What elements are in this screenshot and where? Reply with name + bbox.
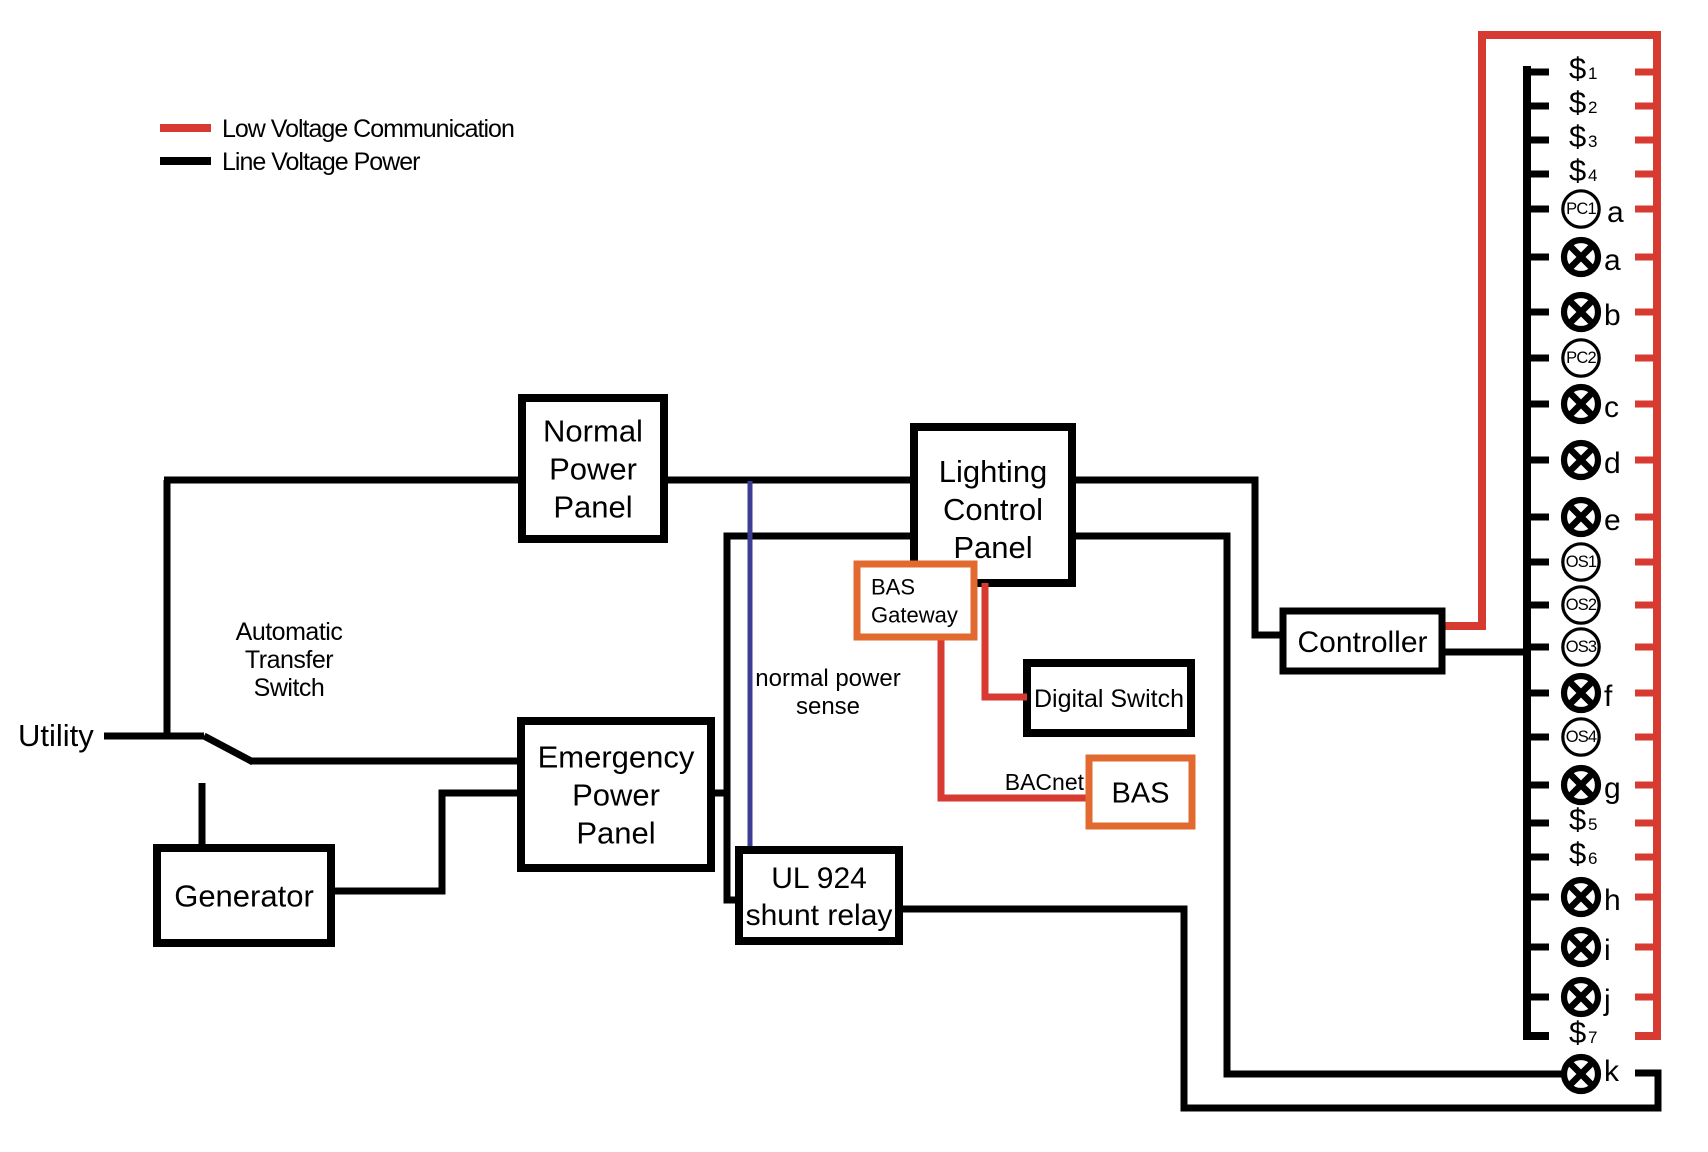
occupancy sensor OS4 xyxy=(1563,719,1599,755)
wire Lighting Control Panel feed via UL924 shunt relay xyxy=(727,536,914,900)
low voltage communication bus (red) with taps xyxy=(1635,35,1657,1036)
wire low voltage riser (red) up and over xyxy=(1482,35,1661,630)
wire Controller low voltage to riser (red) xyxy=(1442,622,1482,630)
switch $3 xyxy=(1569,119,1597,154)
fixture a (downlight) xyxy=(1564,240,1621,277)
svg-text:5: 5 xyxy=(1588,815,1597,834)
wire normal power sense (blue) xyxy=(748,481,753,851)
wire ATS to Normal Power Panel and on to Lighting Control Panel xyxy=(164,477,914,484)
fixture d (downlight) xyxy=(1564,443,1621,480)
svg-text:$: $ xyxy=(1569,802,1586,837)
svg-text:Panel: Panel xyxy=(953,530,1032,565)
fixture g (downlight) xyxy=(1564,768,1621,805)
fixture h (downlight) xyxy=(1564,880,1621,917)
svg-text:Lighting: Lighting xyxy=(939,454,1048,489)
svg-text:Generator: Generator xyxy=(174,879,314,914)
svg-text:Low Voltage Communication: Low Voltage Communication xyxy=(222,115,514,143)
wire BAS Gateway to BAS BACnet (red) xyxy=(941,637,1089,798)
svg-text:UL 924: UL 924 xyxy=(771,862,867,895)
occupancy sensor OS3 xyxy=(1563,629,1599,665)
svg-text:BAS: BAS xyxy=(1111,777,1169,809)
fixture c (downlight) xyxy=(1564,387,1619,424)
occupancy sensor OS2 xyxy=(1563,587,1599,623)
line voltage branch bus (black) with taps xyxy=(1527,66,1549,1036)
occupancy sensor OS1 xyxy=(1563,544,1599,580)
svg-text:Control: Control xyxy=(943,492,1043,527)
svg-text:sense: sense xyxy=(796,693,860,720)
wire Controller to branch bus xyxy=(1442,649,1524,656)
generator xyxy=(157,848,331,943)
svg-text:1: 1 xyxy=(1588,64,1597,83)
svg-text:e: e xyxy=(1604,504,1621,537)
svg-text:$: $ xyxy=(1569,51,1586,86)
label BACnet xyxy=(1005,769,1085,795)
gateway: BAS Gateway xyxy=(857,564,974,637)
legend: line voltage power swatch xyxy=(160,157,211,165)
svg-text:c: c xyxy=(1604,391,1619,424)
photocell PC2 xyxy=(1563,340,1599,376)
svg-text:Utility: Utility xyxy=(18,718,94,753)
legend: line voltage power label xyxy=(222,148,420,176)
fixture i (downlight) xyxy=(1564,930,1611,967)
wire ATS to Emergency Power Panel xyxy=(250,758,521,765)
wire utility lead xyxy=(104,733,204,740)
svg-text:Automatic: Automatic xyxy=(236,618,343,646)
BAS head end xyxy=(1089,758,1192,826)
svg-text:3: 3 xyxy=(1588,132,1597,151)
svg-text:normal power: normal power xyxy=(755,665,900,692)
panel: Normal Power Panel xyxy=(522,398,664,539)
panel: Lighting Control Panel xyxy=(914,427,1072,583)
svg-text:h: h xyxy=(1604,884,1621,917)
wire generator emergency stub xyxy=(199,783,206,850)
switch $5 xyxy=(1569,802,1597,837)
svg-text:i: i xyxy=(1604,934,1611,967)
svg-text:OS4: OS4 xyxy=(1566,728,1597,746)
svg-text:k: k xyxy=(1604,1055,1620,1088)
svg-text:Panel: Panel xyxy=(553,490,632,525)
svg-text:BACnet: BACnet xyxy=(1005,769,1085,795)
svg-text:$: $ xyxy=(1569,85,1586,120)
svg-text:shunt relay: shunt relay xyxy=(746,899,893,932)
svg-text:BAS: BAS xyxy=(871,574,915,599)
svg-text:$: $ xyxy=(1569,119,1586,154)
switch $7 xyxy=(1569,1015,1597,1050)
svg-text:Power: Power xyxy=(572,778,660,813)
wire Lighting Control Panel to Controller xyxy=(1072,480,1283,635)
label Automatic Transfer Switch xyxy=(236,618,343,702)
svg-text:$: $ xyxy=(1569,1015,1586,1050)
wire UL924 shunt relay to fixture k (emergency feed) xyxy=(899,909,1658,1108)
svg-text:2: 2 xyxy=(1588,98,1597,117)
svg-text:7: 7 xyxy=(1588,1028,1597,1047)
legend: low voltage communication swatch xyxy=(160,124,211,132)
svg-text:OS2: OS2 xyxy=(1566,596,1597,614)
wire Emergency Power Panel to UL924 riser xyxy=(711,790,727,797)
svg-text:Power: Power xyxy=(549,452,637,487)
svg-text:j: j xyxy=(1603,984,1611,1017)
fixture e (downlight) xyxy=(1564,500,1621,537)
svg-text:Transfer: Transfer xyxy=(245,646,333,674)
wire Lighting Control Panel to Digital Switch (red) xyxy=(985,583,1027,697)
fixture j (downlight) xyxy=(1564,980,1611,1017)
svg-text:d: d xyxy=(1604,447,1621,480)
photocell PC1 xyxy=(1563,191,1624,229)
switch $1 xyxy=(1569,51,1597,86)
svg-text:Controller: Controller xyxy=(1297,626,1427,659)
fixture f (downlight) xyxy=(1564,676,1613,713)
fixture k (downlight) xyxy=(1564,1055,1620,1091)
svg-text:4: 4 xyxy=(1588,166,1597,185)
legend: low voltage communication label xyxy=(222,115,514,143)
svg-text:6: 6 xyxy=(1588,849,1597,868)
wire Lighting Control Panel to fixture k xyxy=(1072,536,1562,1074)
svg-text:a: a xyxy=(1604,244,1621,277)
svg-text:f: f xyxy=(1604,680,1613,713)
node Utility label xyxy=(18,718,94,753)
svg-text:OS3: OS3 xyxy=(1566,638,1597,656)
svg-text:g: g xyxy=(1604,772,1621,805)
svg-text:Digital Switch: Digital Switch xyxy=(1034,685,1184,713)
label normal power sense xyxy=(755,665,900,720)
svg-text:PC2: PC2 xyxy=(1566,349,1596,367)
switch $4 xyxy=(1569,153,1597,188)
controller xyxy=(1283,611,1442,671)
relay: UL 924 shunt relay xyxy=(739,850,899,941)
svg-text:$: $ xyxy=(1569,153,1586,188)
wire ATS normal branch vertical xyxy=(164,480,171,736)
panel: Emergency Power Panel xyxy=(521,721,711,868)
svg-text:Line Voltage Power: Line Voltage Power xyxy=(222,148,420,176)
svg-text:b: b xyxy=(1604,299,1621,332)
svg-text:Gateway: Gateway xyxy=(871,602,958,627)
svg-text:Emergency: Emergency xyxy=(538,740,695,775)
fixture b (downlight) xyxy=(1564,295,1621,332)
svg-text:Normal: Normal xyxy=(543,414,643,449)
wire generator to Emergency Power Panel xyxy=(331,793,521,891)
svg-text:OS1: OS1 xyxy=(1566,553,1597,571)
switch $2 xyxy=(1569,85,1597,120)
svg-text:$: $ xyxy=(1569,836,1586,871)
automatic transfer switch blade (diagonal) xyxy=(204,736,253,762)
switch $6 xyxy=(1569,836,1597,871)
svg-text:Panel: Panel xyxy=(576,816,655,851)
digital switch xyxy=(1027,663,1191,733)
svg-text:Switch: Switch xyxy=(254,674,325,702)
svg-text:a: a xyxy=(1607,196,1624,229)
svg-text:PC1: PC1 xyxy=(1566,200,1596,218)
